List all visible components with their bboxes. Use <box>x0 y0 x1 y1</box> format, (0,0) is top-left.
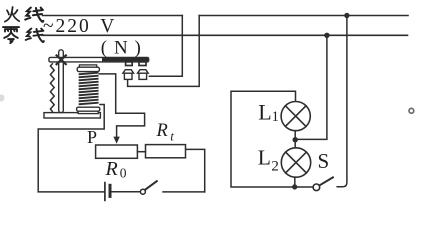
junction node on live line <box>344 13 349 18</box>
pivot post <box>59 50 64 113</box>
switch S lever <box>320 177 333 185</box>
battery short plate <box>109 185 112 196</box>
coil turns <box>80 73 98 104</box>
svg-text:S: S <box>318 149 330 173</box>
moving contact 1 <box>126 62 133 66</box>
coil cap <box>77 67 99 71</box>
svg-text:t: t <box>170 128 174 143</box>
battery long plate <box>104 183 106 201</box>
wire L2 bottom <box>294 177 296 187</box>
wire: live line left segment <box>43 15 183 17</box>
svg-text:2: 2 <box>271 158 279 174</box>
svg-text:0: 0 <box>120 166 127 181</box>
svg-text:~220: ~220 <box>43 16 91 37</box>
wire: coil top terminal to wiper P (with jog) <box>99 74 144 137</box>
coil flange lower <box>78 111 98 113</box>
moving contact 2 <box>139 62 146 66</box>
resistor Rt box <box>146 145 186 158</box>
switch pivot (battery circuit) <box>140 189 145 194</box>
svg-text:L: L <box>258 146 271 170</box>
lamp branch box (left + top + bottom) <box>231 91 313 187</box>
svg-text:1: 1 <box>272 109 279 125</box>
relay base <box>44 113 100 118</box>
spring <box>50 64 54 112</box>
wire: neutral line <box>42 34 408 36</box>
svg-text:P: P <box>87 127 97 147</box>
wire node to neutral drop <box>295 35 327 139</box>
wire: drop B from live line right segment to left relay contact <box>128 16 200 87</box>
armature bar <box>49 57 149 62</box>
wire switch to right vertical <box>163 191 205 193</box>
junction node under L1 <box>293 137 298 142</box>
svg-text:( N ): ( N ) <box>101 38 142 59</box>
svg-text:R: R <box>105 158 118 180</box>
wire: drop A from live line to right relay contact <box>149 16 182 77</box>
wire right vertical up to Rt <box>186 149 205 192</box>
junction node on neutral line <box>324 33 329 38</box>
coil lid <box>79 65 96 67</box>
wire L1 bottom to L2 top <box>294 131 296 148</box>
label 零线 (neutral wire) <box>3 27 44 43</box>
lamp L1 <box>281 102 310 131</box>
resistor R0 box <box>96 145 138 158</box>
arrowhead of wiper P <box>113 137 119 144</box>
coil flange upper <box>77 107 100 111</box>
junction node bottom <box>292 184 297 189</box>
wire: live line right segment <box>199 15 408 17</box>
svg-text:L: L <box>258 99 271 124</box>
wire hook to live drop <box>337 16 347 187</box>
svg-text:V: V <box>100 16 114 37</box>
switch S pivot <box>313 184 320 191</box>
fixed contact 2 <box>138 70 149 74</box>
lamp L2 <box>281 148 310 177</box>
stray ring mark <box>409 108 414 113</box>
wire between R0 and Rt <box>137 151 145 153</box>
pivot X mark <box>57 55 66 64</box>
fixed contact 1 <box>123 70 134 74</box>
faint edge smudge <box>0 95 5 102</box>
svg-text:R: R <box>156 121 168 141</box>
switch lever (battery circuit) <box>145 181 157 189</box>
wire battery to switch <box>112 191 141 193</box>
label 火线 (live wire) <box>5 7 43 22</box>
wire: coil bottom terminal, left side down to bottom <box>38 105 104 192</box>
